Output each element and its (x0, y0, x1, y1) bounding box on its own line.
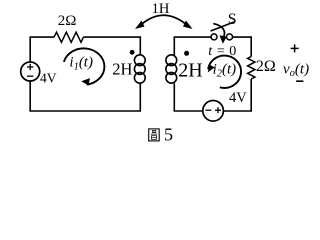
coupling dot (left coil) (130, 50, 135, 55)
inductor L1 2H (left coil) (134, 55, 145, 83)
svg-text:5: 5 (164, 125, 173, 145)
current loop arrow i1(t) (64, 48, 105, 85)
wire: right rail bottom (224, 79, 251, 111)
wire: switch to top-right corner (233, 37, 252, 56)
switch S blade (211, 22, 235, 31)
svg-text:2Ω: 2Ω (58, 13, 77, 29)
wire: left loop top-left segment (30, 37, 54, 62)
current loop arrow i2(t) (208, 56, 241, 88)
svg-text:4V: 4V (40, 71, 57, 86)
voltage source V1 4V (left) (21, 62, 40, 81)
wire: right loop left rail (174, 37, 211, 111)
svg-text:2Ω: 2Ω (256, 58, 276, 75)
svg-text:i1(t): i1(t) (69, 55, 93, 73)
svg-text:i2(t): i2(t) (213, 61, 237, 79)
wire: left loop top-right segment (84, 37, 141, 55)
svg-text:1H: 1H (152, 1, 170, 17)
svg-text:vo(t): vo(t) (283, 62, 309, 80)
resistor R2 2Ω (vertical zigzag) (248, 57, 255, 80)
switch S closing arrow (213, 24, 227, 44)
inductor L2 2H (right coil) (166, 55, 177, 83)
svg-text:S: S (228, 11, 237, 28)
svg-text:4V: 4V (229, 90, 247, 106)
label + (output polarity) (291, 44, 299, 52)
wire: left loop bottom (30, 81, 140, 111)
resistor R1 2Ω (horizontal zigzag) (54, 32, 84, 42)
mutual inductance arrow 1H (double-headed arc) (135, 15, 193, 29)
voltage source V2 4V (bottom right) (203, 101, 224, 122)
label − (output polarity) (296, 80, 303, 82)
svg-text:2H: 2H (112, 59, 132, 78)
coupling dot (right coil) (184, 51, 189, 56)
switch S terminals (211, 34, 233, 40)
caption 圖 glyph (drawn) (149, 129, 160, 141)
svg-text:2H: 2H (178, 59, 202, 81)
